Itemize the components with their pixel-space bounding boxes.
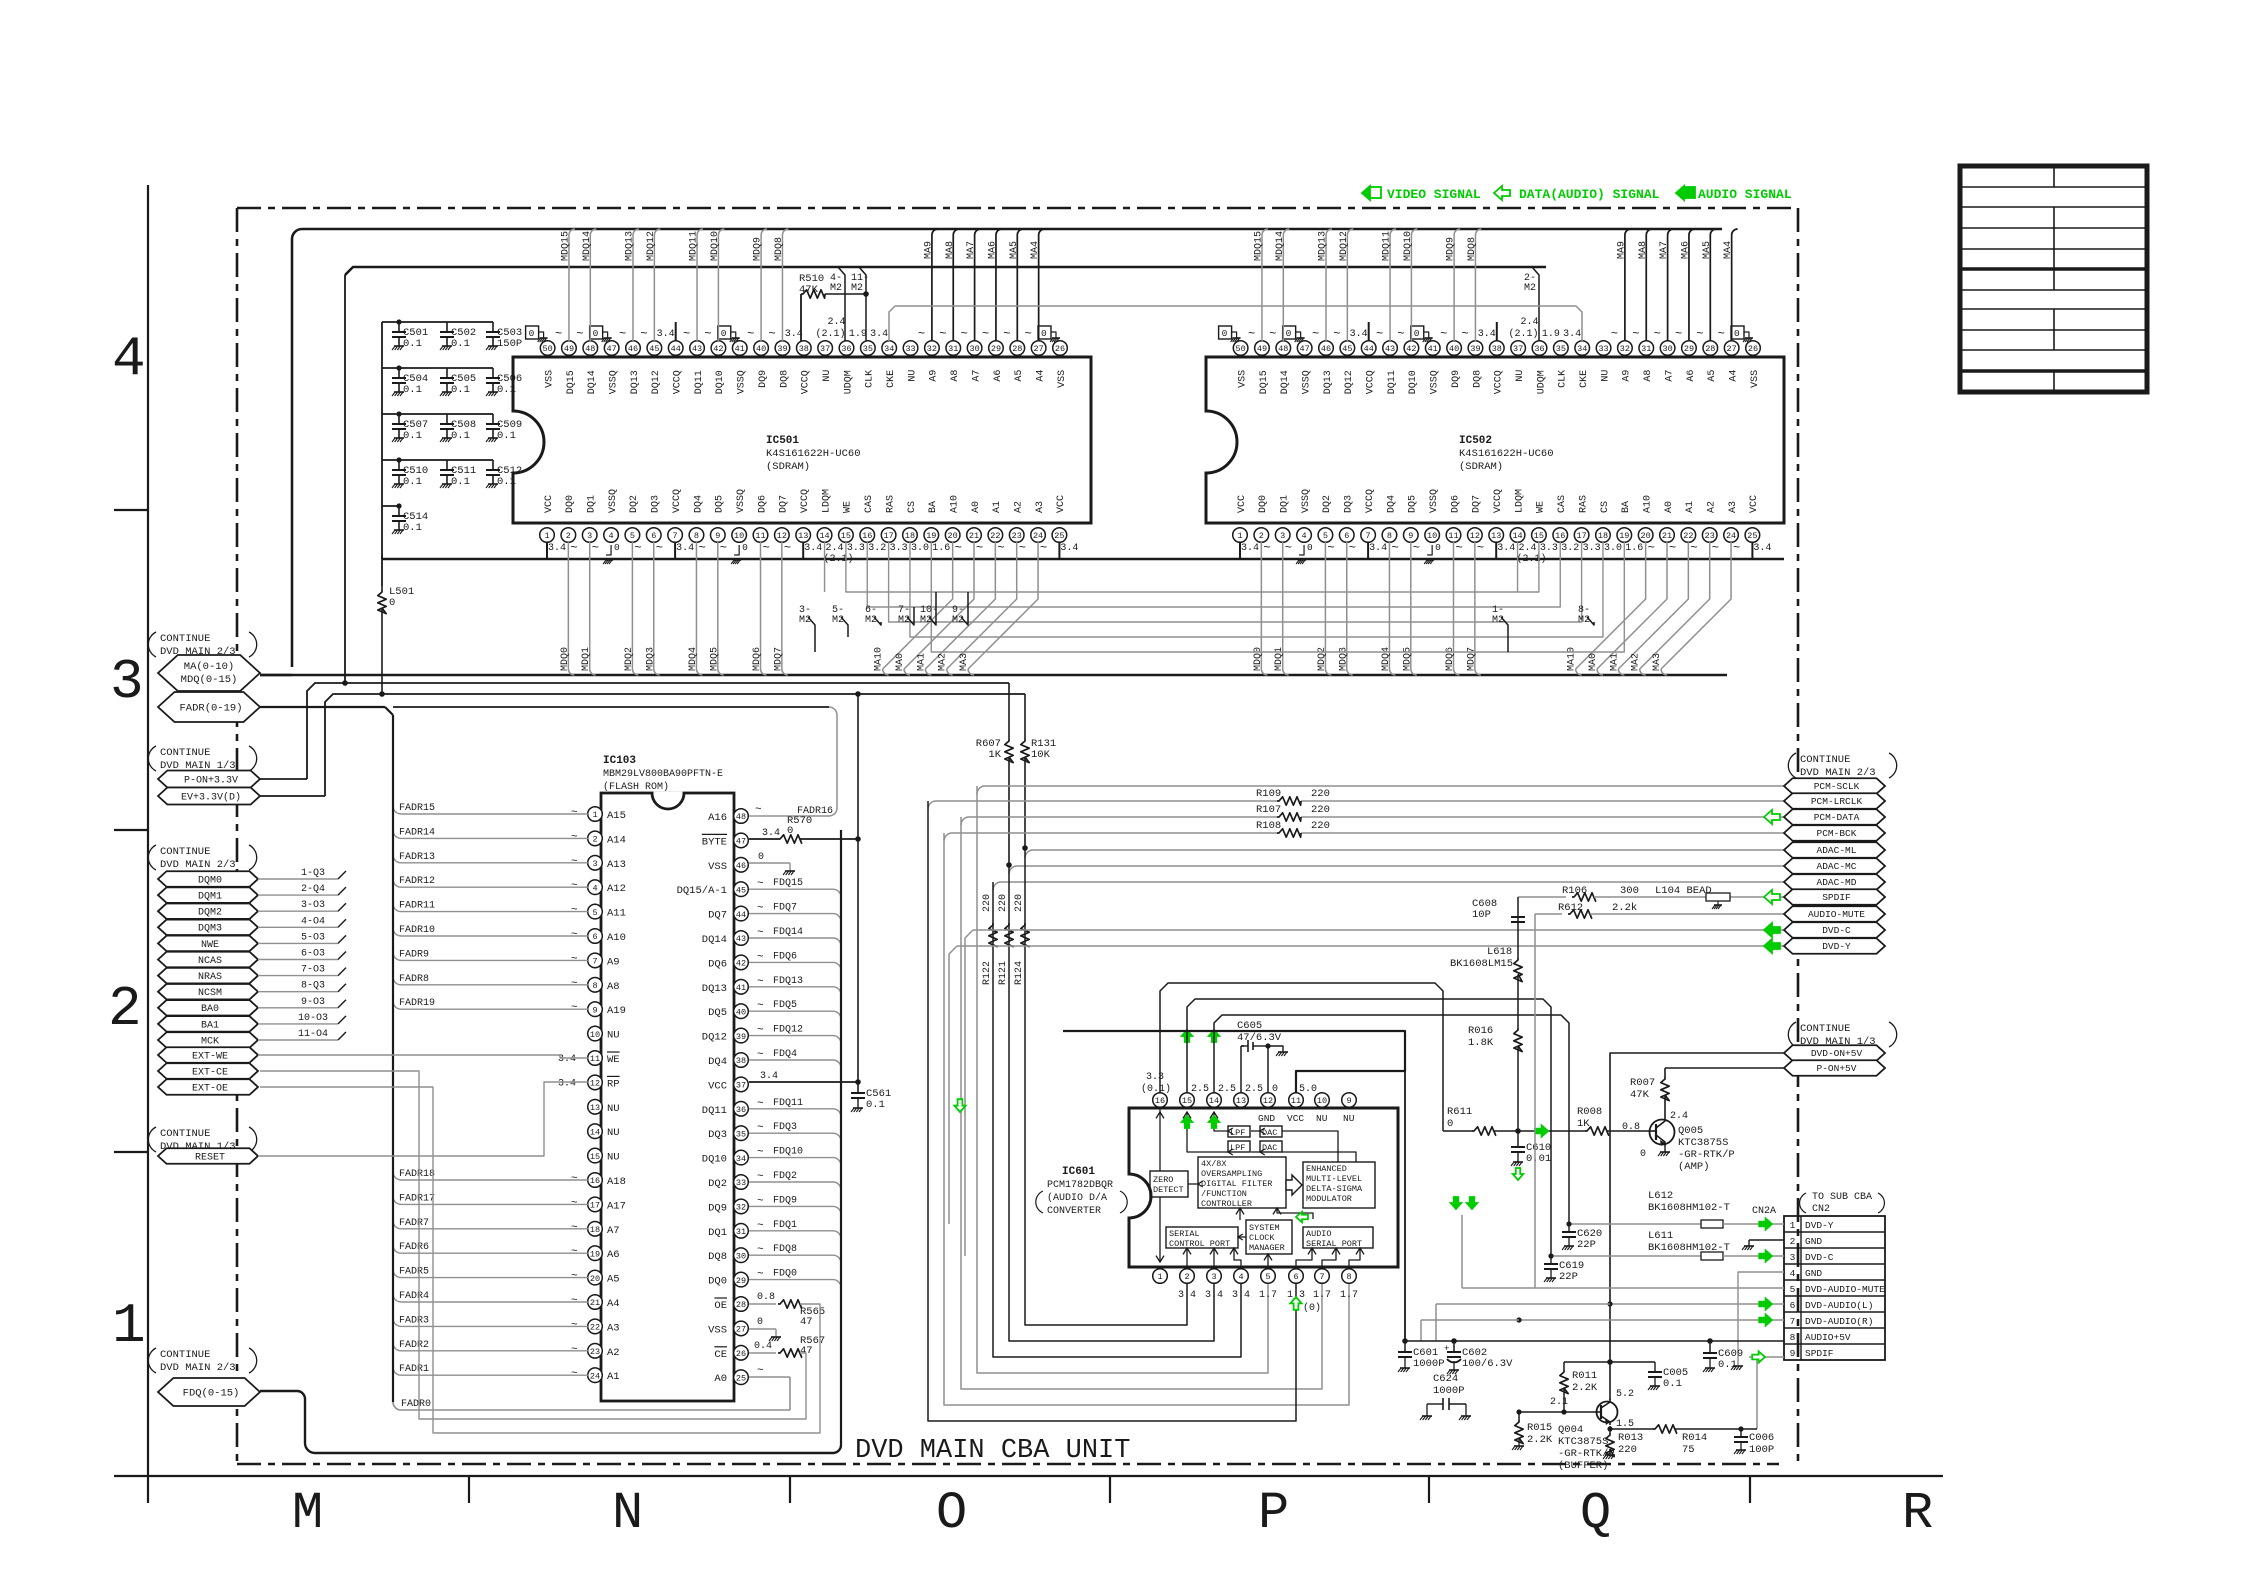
svg-text:-GR-RTK/P: -GR-RTK/P — [1678, 1149, 1735, 1161]
svg-text:WE: WE — [843, 501, 854, 513]
wire EXT-WE — [258, 1054, 560, 1056]
svg-text:DQ1: DQ1 — [1280, 495, 1291, 513]
svg-text:3.4: 3.4 — [1205, 1290, 1223, 1301]
svg-text:DVD-Y: DVD-Y — [1822, 941, 1851, 952]
svg-text:DQ7: DQ7 — [708, 910, 727, 922]
svg-text:~: ~ — [757, 1122, 764, 1134]
svg-text:DQM2: DQM2 — [198, 908, 222, 919]
svg-text:EXT-CE: EXT-CE — [192, 1067, 228, 1078]
capacitors C501-C514 grid — [381, 322, 383, 586]
svg-text:CKE: CKE — [1579, 370, 1590, 388]
legend data signal arrow — [1494, 186, 1510, 200]
svg-text:3.3: 3.3 — [847, 543, 865, 554]
svg-text:0.1: 0.1 — [403, 338, 422, 350]
svg-text:DQ6: DQ6 — [757, 495, 768, 513]
svg-text:0: 0 — [742, 542, 748, 553]
svg-text:MA3: MA3 — [1652, 653, 1663, 671]
svg-text:CONVERTER: CONVERTER — [1047, 1206, 1101, 1217]
svg-text:9-O3: 9-O3 — [301, 997, 325, 1008]
svg-text:~: ~ — [1327, 541, 1334, 555]
svg-text:ENHANCED: ENHANCED — [1306, 1164, 1347, 1174]
svg-text:DQ3: DQ3 — [651, 495, 662, 513]
svg-text:3.4: 3.4 — [1350, 329, 1368, 340]
svg-text:VCCQ: VCCQ — [800, 489, 811, 513]
svg-text:PCM-LRCLK: PCM-LRCLK — [1811, 796, 1863, 807]
svg-text:0.1: 0.1 — [451, 384, 470, 396]
svg-text:MDQ9: MDQ9 — [753, 237, 764, 261]
svg-text:VCCQ: VCCQ — [673, 370, 684, 394]
svg-text:1: 1 — [592, 810, 597, 820]
svg-text:1.9: 1.9 — [849, 329, 867, 340]
resistor R567 — [749, 1352, 776, 1354]
svg-text:DQ1: DQ1 — [708, 1227, 727, 1239]
svg-text:3.3: 3.3 — [890, 543, 908, 554]
svg-text:R: R — [1902, 1484, 1933, 1543]
svg-text:3.4: 3.4 — [804, 543, 822, 554]
svg-text:29: 29 — [1684, 344, 1694, 354]
svg-text:4: 4 — [112, 327, 146, 391]
svg-text:45: 45 — [1342, 344, 1352, 354]
svg-text:VSS: VSS — [1057, 370, 1068, 388]
svg-text:/FUNCTION: /FUNCTION — [1201, 1189, 1247, 1199]
svg-text:3.4: 3.4 — [1241, 543, 1259, 554]
svg-text:DQ3: DQ3 — [1344, 495, 1355, 513]
svg-text:30: 30 — [736, 1251, 746, 1261]
svg-text:23: 23 — [590, 1347, 600, 1357]
svg-text:MDQ11: MDQ11 — [689, 231, 700, 261]
wire LDQM drops — [824, 542, 826, 592]
svg-text:CONTINUE: CONTINUE — [160, 747, 210, 759]
green arrow R008 wire — [1535, 1125, 1548, 1136]
svg-text:~: ~ — [576, 327, 583, 341]
svg-text:47/6.3V: 47/6.3V — [1237, 1032, 1282, 1044]
svg-text:12: 12 — [590, 1079, 600, 1089]
svg-text:29: 29 — [991, 344, 1001, 354]
svg-text:DQ12: DQ12 — [702, 1032, 727, 1044]
svg-text:3.4: 3.4 — [1369, 543, 1387, 554]
svg-text:8: 8 — [1387, 531, 1392, 541]
svg-text:A7: A7 — [607, 1225, 620, 1237]
svg-text:AUDIO-MUTE: AUDIO-MUTE — [1808, 909, 1865, 920]
capacitor C620 — [1568, 1224, 1570, 1232]
svg-text:FDQ(0-15): FDQ(0-15) — [183, 1388, 240, 1400]
svg-text:MDQ1: MDQ1 — [581, 647, 592, 671]
svg-text:A7: A7 — [1664, 370, 1675, 382]
svg-text:A17: A17 — [607, 1200, 626, 1212]
connector tag EV+3.3V(D) — [158, 788, 260, 805]
svg-text:FADR4: FADR4 — [399, 1291, 429, 1302]
wire CN2A pin5 mute — [1462, 1287, 1784, 1289]
svg-text:NCAS: NCAS — [198, 956, 222, 967]
IC601 LPF1 — [1228, 1126, 1250, 1137]
svg-text:MA2: MA2 — [1631, 653, 1642, 671]
svg-text:~: ~ — [555, 327, 562, 341]
svg-text:220: 220 — [1311, 820, 1330, 832]
svg-text:NRAS: NRAS — [198, 972, 222, 983]
svg-text:DQ3: DQ3 — [708, 1129, 727, 1141]
svg-text:NU: NU — [1343, 1113, 1355, 1124]
svg-text:MDQ10: MDQ10 — [1403, 231, 1414, 261]
svg-text:MA6: MA6 — [987, 241, 998, 259]
wire CN2A gnd2 — [1749, 1239, 1784, 1241]
svg-text:MA1: MA1 — [1609, 653, 1620, 671]
svg-text:~: ~ — [757, 1171, 764, 1183]
svg-text:14: 14 — [819, 531, 829, 541]
svg-text:L611: L611 — [1648, 1230, 1673, 1242]
svg-text:44: 44 — [671, 344, 681, 354]
svg-text:CONTINUE: CONTINUE — [1800, 1023, 1850, 1035]
svg-text:~: ~ — [757, 903, 764, 915]
svg-text:4: 4 — [592, 883, 597, 893]
net stub 4-M2 — [838, 267, 845, 341]
svg-text:11: 11 — [755, 531, 765, 541]
svg-text:~: ~ — [757, 976, 764, 988]
svg-text:17: 17 — [883, 531, 893, 541]
svg-text:A2: A2 — [607, 1347, 620, 1359]
svg-text:34: 34 — [884, 344, 894, 354]
svg-text:22: 22 — [990, 531, 1000, 541]
svg-text:34: 34 — [1577, 344, 1587, 354]
svg-text:FADR13: FADR13 — [399, 852, 435, 863]
svg-text:DQ13: DQ13 — [1323, 370, 1334, 394]
svg-text:~: ~ — [1349, 541, 1356, 555]
svg-text:~: ~ — [1440, 327, 1447, 341]
svg-text:CLK: CLK — [865, 370, 876, 388]
svg-text:FDQ7: FDQ7 — [773, 903, 797, 914]
green arrow CN2A pin9 — [1752, 1351, 1765, 1362]
IC601 LPF2 — [1228, 1141, 1250, 1152]
svg-text:5.0: 5.0 — [1299, 1084, 1317, 1095]
svg-text:32: 32 — [927, 344, 937, 354]
svg-text:K4S161622H-UC60: K4S161622H-UC60 — [1459, 448, 1554, 460]
IC601 internal wires — [1159, 1108, 1161, 1171]
svg-text:~: ~ — [755, 804, 762, 816]
svg-text:0.4: 0.4 — [754, 1341, 772, 1352]
svg-text:0.1: 0.1 — [403, 476, 422, 488]
svg-text:16: 16 — [1155, 1096, 1165, 1106]
svg-text:DQ13: DQ13 — [630, 370, 641, 394]
svg-text:(AUDIO D/A: (AUDIO D/A — [1047, 1192, 1107, 1204]
svg-text:3.4: 3.4 — [870, 329, 888, 340]
svg-text:~: ~ — [1477, 541, 1484, 555]
svg-text:11: 11 — [590, 1054, 600, 1064]
svg-text:N: N — [612, 1484, 643, 1543]
svg-text:DQ5: DQ5 — [1408, 495, 1419, 513]
wire FADR tag out — [260, 706, 385, 708]
svg-text:~: ~ — [1003, 327, 1010, 341]
svg-text:10: 10 — [1427, 531, 1437, 541]
svg-text:MDQ6: MDQ6 — [1445, 647, 1456, 671]
svg-text:0: 0 — [1734, 328, 1740, 339]
svg-text:GND: GND — [1805, 1268, 1822, 1279]
wire pin11 5V — [1063, 1031, 1405, 1093]
svg-text:UDQM: UDQM — [1536, 370, 1547, 394]
svg-text:21: 21 — [590, 1298, 600, 1308]
svg-text:3.4: 3.4 — [1060, 543, 1078, 554]
svg-text:5: 5 — [1323, 531, 1328, 541]
svg-text:39: 39 — [777, 344, 787, 354]
wire P-ON+5V to R007 — [1665, 1067, 1784, 1069]
connector tag FDQ(0-15) — [158, 1378, 260, 1406]
svg-text:~: ~ — [955, 541, 962, 555]
svg-text:14: 14 — [590, 1127, 600, 1137]
svg-text:3.4: 3.4 — [657, 329, 675, 340]
svg-text:13: 13 — [1491, 531, 1501, 541]
svg-text:DVD-AUDIO(L): DVD-AUDIO(L) — [1805, 1300, 1873, 1311]
svg-text:1000P: 1000P — [1413, 1358, 1445, 1370]
svg-text:IC601: IC601 — [1062, 1166, 1095, 1178]
bus FDQ bottom rail — [305, 1399, 841, 1453]
IC103 box — [601, 793, 734, 1401]
svg-text:A15: A15 — [607, 810, 626, 822]
wire SPDIF — [1518, 896, 1566, 898]
resistor R122 — [989, 923, 997, 947]
svg-text:28: 28 — [1012, 344, 1022, 354]
svg-text:MDQ14: MDQ14 — [1275, 231, 1286, 261]
svg-text:M2: M2 — [865, 615, 877, 626]
svg-text:DQ10: DQ10 — [702, 1154, 727, 1166]
svg-text:DQ11: DQ11 — [694, 370, 705, 394]
svg-text:R015: R015 — [1527, 1422, 1552, 1434]
svg-text:PCM-BCK: PCM-BCK — [1817, 828, 1857, 839]
svg-text:A10: A10 — [1642, 495, 1653, 513]
svg-text:GND: GND — [1258, 1113, 1275, 1124]
svg-text:10P: 10P — [1472, 909, 1491, 921]
svg-text:3: 3 — [110, 650, 144, 714]
svg-text:2.4: 2.4 — [1520, 317, 1538, 328]
svg-text:~: ~ — [1391, 541, 1398, 555]
svg-text:DQ15/A-1: DQ15/A-1 — [677, 885, 727, 897]
vertical EV/BYTE net x858 — [857, 694, 859, 1093]
svg-text:MA10: MA10 — [1567, 647, 1578, 671]
svg-text:VCC: VCC — [708, 1080, 727, 1092]
svg-text:FDQ14: FDQ14 — [773, 927, 803, 938]
svg-text:MDQ8: MDQ8 — [774, 237, 785, 261]
svg-text:1000P: 1000P — [1433, 1385, 1465, 1397]
svg-text:1.7: 1.7 — [1259, 1290, 1277, 1301]
svg-text:VSS: VSS — [1750, 370, 1761, 388]
svg-text:2: 2 — [1790, 1236, 1796, 1247]
net stubs 1-M2 8-M2 — [1501, 617, 1508, 652]
svg-text:~: ~ — [757, 951, 764, 963]
svg-text:M2: M2 — [799, 615, 811, 626]
svg-text:BYTE: BYTE — [702, 836, 727, 848]
svg-text:DQ4: DQ4 — [693, 495, 704, 513]
wires MA4-9 risers IC501 — [932, 229, 938, 341]
svg-text:CONTINUE: CONTINUE — [160, 633, 210, 645]
resistor R131 — [1024, 694, 1026, 739]
svg-text:7: 7 — [592, 957, 597, 967]
svg-text:C006: C006 — [1749, 1432, 1774, 1444]
svg-text:2: 2 — [592, 835, 597, 845]
svg-text:AUDIO SIGNAL: AUDIO SIGNAL — [1698, 187, 1792, 202]
wire pin13 to C605 — [1240, 1046, 1242, 1093]
svg-text:3.4: 3.4 — [558, 1078, 576, 1089]
svg-text:~: ~ — [571, 1246, 578, 1258]
svg-text:DQ8: DQ8 — [1472, 370, 1483, 388]
svg-text:14: 14 — [1209, 1096, 1219, 1106]
svg-text:3.4: 3.4 — [1178, 1290, 1196, 1301]
svg-text:FDQ3: FDQ3 — [773, 1122, 797, 1133]
svg-text:220: 220 — [1311, 804, 1330, 816]
svg-text:(2.1): (2.1) — [1508, 328, 1538, 340]
wire CN2A pin6 — [1610, 1303, 1784, 1305]
svg-text:~: ~ — [571, 831, 578, 843]
svg-text:VIDEO SIGNAL: VIDEO SIGNAL — [1387, 187, 1481, 202]
svg-text:0.1: 0.1 — [403, 522, 422, 534]
svg-text:BA: BA — [1621, 501, 1632, 513]
wire Q004 collector — [1609, 1362, 1611, 1400]
svg-text:RESET: RESET — [195, 1152, 225, 1163]
svg-text:A1: A1 — [992, 501, 1003, 513]
resistor R011 — [1563, 1362, 1565, 1370]
svg-text:1: 1 — [1790, 1220, 1796, 1231]
svg-text:1.7: 1.7 — [1313, 1290, 1331, 1301]
wires MA drops IC502 — [1576, 542, 1646, 669]
svg-text:A4: A4 — [1035, 370, 1046, 382]
svg-text:0.1: 0.1 — [497, 430, 516, 442]
svg-text:~: ~ — [571, 856, 578, 868]
svg-text:31: 31 — [736, 1227, 746, 1237]
legend video signal arrow — [1362, 186, 1378, 200]
svg-text:WE: WE — [1536, 501, 1547, 513]
svg-text:~: ~ — [1263, 541, 1270, 555]
svg-text:CONTINUE: CONTINUE — [160, 1349, 210, 1361]
wire AUDIO-MUTE — [1535, 913, 1562, 915]
svg-text:DQ12: DQ12 — [651, 370, 662, 394]
svg-text:FDQ5: FDQ5 — [773, 1000, 797, 1011]
svg-text:MA9: MA9 — [923, 241, 934, 259]
svg-text:A10: A10 — [949, 495, 960, 513]
svg-text:A0: A0 — [714, 1373, 727, 1385]
connector tag DVD-ON+5V — [1784, 1045, 1885, 1061]
svg-text:MBM29LV800BA90PFTN-E: MBM29LV800BA90PFTN-E — [603, 769, 723, 780]
svg-text:FDQ15: FDQ15 — [773, 878, 803, 889]
IC601 green arrow internal left — [1296, 1212, 1308, 1223]
IC601 DAC1 — [1260, 1126, 1282, 1137]
svg-text:3: 3 — [1211, 1272, 1216, 1282]
svg-text:18: 18 — [590, 1225, 600, 1235]
svg-text:220: 220 — [982, 894, 993, 912]
svg-text:KTC3875S: KTC3875S — [1558, 1436, 1608, 1448]
svg-text:4: 4 — [1301, 531, 1306, 541]
svg-text:46: 46 — [1321, 344, 1331, 354]
svg-text:MCK: MCK — [201, 1036, 219, 1047]
svg-text:A1: A1 — [607, 1371, 620, 1383]
svg-text:~: ~ — [571, 1344, 578, 1356]
svg-text:CONTROLLER: CONTROLLER — [1201, 1199, 1252, 1209]
svg-text:220: 220 — [1014, 894, 1025, 912]
svg-text:~: ~ — [982, 327, 989, 341]
svg-text:3: 3 — [587, 531, 592, 541]
svg-text:M2: M2 — [851, 283, 863, 294]
svg-text:3.4: 3.4 — [760, 1071, 778, 1082]
svg-text:VCCQ: VCCQ — [1365, 489, 1376, 513]
svg-text:A4: A4 — [607, 1298, 620, 1310]
svg-text:43: 43 — [736, 934, 746, 944]
svg-text:BK1608LM152: BK1608LM152 — [1450, 958, 1519, 970]
svg-text:FDQ0: FDQ0 — [773, 1269, 797, 1280]
svg-text:FADR8: FADR8 — [399, 974, 429, 985]
green arrow SPDIF — [1764, 890, 1780, 904]
svg-text:25: 25 — [736, 1373, 746, 1383]
svg-text:A2: A2 — [1014, 501, 1025, 513]
vertical L618/R016 net — [1517, 897, 1519, 1131]
svg-text:7: 7 — [1366, 531, 1371, 541]
resistor R607 — [1008, 683, 1010, 739]
svg-text:0.1: 0.1 — [497, 384, 516, 396]
svg-text:46: 46 — [736, 861, 746, 871]
wire EV out — [260, 795, 325, 797]
svg-text:PCM1782DBQR: PCM1782DBQR — [1047, 1180, 1113, 1191]
svg-text:3.4: 3.4 — [762, 828, 780, 839]
svg-text:2: 2 — [1259, 531, 1264, 541]
svg-text:MDQ14: MDQ14 — [582, 231, 593, 261]
svg-text:~: ~ — [757, 878, 764, 890]
svg-text:38: 38 — [1492, 344, 1502, 354]
IC103 left pins — [588, 807, 603, 822]
svg-text:10: 10 — [1317, 1096, 1327, 1106]
svg-text:2.2K: 2.2K — [1527, 1434, 1553, 1446]
svg-text:VCC: VCC — [1056, 495, 1067, 513]
svg-text:(FLASH ROM): (FLASH ROM) — [603, 781, 669, 793]
svg-text:A19: A19 — [607, 1005, 626, 1017]
wire pin14 nest — [1214, 1015, 1569, 1224]
bus FDQ vertical riser — [840, 830, 842, 1445]
svg-text:2.4: 2.4 — [827, 317, 845, 328]
svg-text:VCC: VCC — [544, 495, 555, 513]
svg-text:AUDIO: AUDIO — [1306, 1229, 1332, 1239]
svg-text:6: 6 — [1790, 1300, 1796, 1311]
svg-text:DQ7: DQ7 — [779, 495, 790, 513]
svg-text:MDQ12: MDQ12 — [1339, 231, 1350, 261]
svg-text:~: ~ — [640, 327, 647, 341]
svg-text:M: M — [292, 1484, 323, 1543]
svg-text:33: 33 — [1598, 344, 1608, 354]
green arrow PCM-DATA — [1764, 810, 1780, 824]
svg-text:R106: R106 — [1562, 885, 1587, 897]
svg-text:EXT-WE: EXT-WE — [192, 1051, 228, 1062]
svg-text:DATA(AUDIO) SIGNAL: DATA(AUDIO) SIGNAL — [1519, 187, 1660, 202]
svg-text:24: 24 — [1033, 531, 1043, 541]
svg-text:~: ~ — [1632, 327, 1639, 341]
svg-text:9: 9 — [592, 1005, 597, 1015]
svg-text:1: 1 — [1237, 531, 1242, 541]
svg-text:VSS: VSS — [708, 861, 727, 873]
IC601 digital filter block — [1198, 1157, 1286, 1208]
svg-text:3.4: 3.4 — [558, 1054, 576, 1065]
capacitor C609 — [1709, 1341, 1711, 1353]
svg-text:~: ~ — [1712, 541, 1719, 555]
svg-text:DQ14: DQ14 — [587, 370, 598, 394]
svg-text:7: 7 — [1790, 1316, 1796, 1327]
svg-text:0.8: 0.8 — [1622, 1122, 1640, 1133]
svg-text:A8: A8 — [607, 981, 620, 993]
svg-text:R011: R011 — [1572, 1370, 1597, 1382]
svg-text:0: 0 — [758, 852, 764, 863]
svg-text:CN2: CN2 — [1812, 1204, 1830, 1215]
svg-text:~: ~ — [1690, 541, 1697, 555]
svg-text:42: 42 — [1406, 344, 1416, 354]
svg-text:DQ2: DQ2 — [629, 495, 640, 513]
svg-text:0: 0 — [389, 597, 395, 609]
svg-text:~: ~ — [571, 1295, 578, 1307]
wire AUDIO-MUTE riser — [1534, 914, 1536, 1288]
svg-text:R611: R611 — [1447, 1106, 1472, 1118]
svg-text:~: ~ — [698, 541, 705, 555]
svg-text:40: 40 — [1449, 344, 1459, 354]
svg-text:VSSQ: VSSQ — [1301, 370, 1312, 394]
